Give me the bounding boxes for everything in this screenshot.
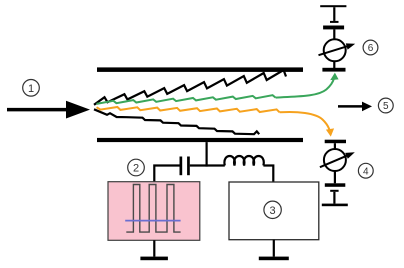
blue threshold line inside pink box [125, 220, 180, 222]
orange arrowhead [326, 128, 334, 136]
green output curve to meter 6 [276, 78, 335, 98]
wire inductor to box 3 [263, 166, 273, 182]
meter 6 top bar [323, 26, 344, 30]
node 4 label circle [358, 163, 373, 178]
ground under box 3 [259, 240, 289, 261]
square wave trace inside pink box [126, 185, 180, 233]
node 6 label circle [363, 40, 378, 55]
box 3 (oscillator) [229, 182, 319, 240]
node 2 label circle [128, 159, 145, 176]
orange output curve to meter 4 [280, 112, 330, 132]
wire from bottom plate down [206, 142, 208, 167]
meter U6 (galvanometer) [319, 29, 356, 68]
ground under pink box [140, 240, 168, 260]
inductor L [224, 156, 263, 166]
upper black zigzag (growing wave) [94, 70, 286, 105]
node 3 label circle [264, 201, 281, 218]
wire capacitor to inductor [190, 164, 225, 166]
meter 6 bottom bar [322, 68, 345, 72]
svg-text:5: 5 [383, 101, 389, 112]
input arrow (electron beam in) [7, 101, 90, 119]
meter 6 ground terminal (top) [320, 5, 346, 23]
meter 4 ground terminal (bottom) [322, 190, 348, 206]
svg-text:3: 3 [270, 205, 276, 217]
lower black zigzag (growing wave) [94, 109, 259, 134]
wire from capacitor to pink box corner [154, 166, 180, 182]
green signal wave [97, 95, 276, 104]
pink box (pulse generator) [108, 182, 200, 241]
svg-text:4: 4 [363, 166, 369, 177]
meter U4 (galvanometer) [320, 143, 355, 183]
meter 4 top bar [325, 140, 346, 144]
meter 4 bottom bar [325, 183, 346, 187]
node 1 label circle [23, 80, 40, 97]
green arrowhead [330, 73, 338, 81]
node 5 label circle [378, 98, 393, 113]
svg-text:6: 6 [368, 43, 374, 54]
top plate (slow-wave electrode) [97, 67, 303, 72]
svg-text:1: 1 [28, 83, 34, 95]
orange signal wave [97, 107, 280, 112]
output arrow 5 [338, 102, 372, 112]
bottom plate (slow-wave electrode) [97, 138, 303, 142]
capacitor C [180, 157, 190, 176]
svg-text:2: 2 [133, 163, 139, 175]
